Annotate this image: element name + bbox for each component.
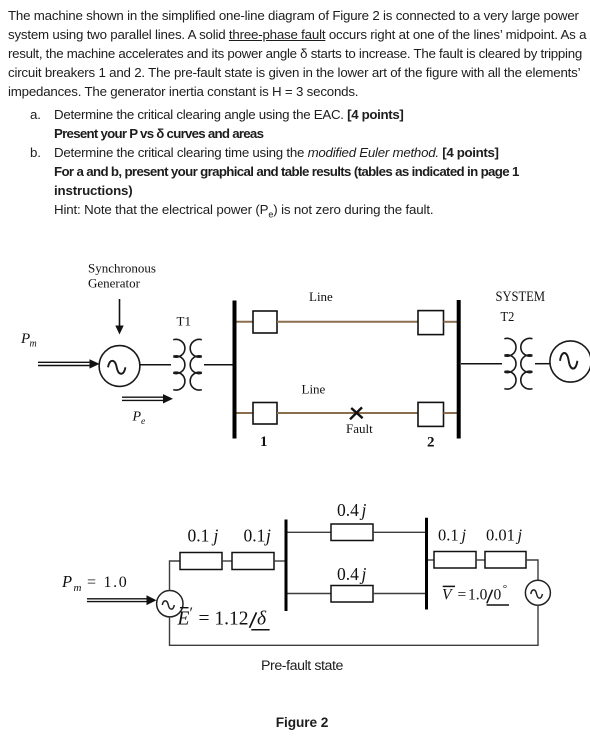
label Synchronous Generator	[88, 260, 156, 290]
label V = 1.0 angle 0	[442, 583, 509, 605]
label 0.4j lower	[337, 564, 367, 584]
svg-text:1.0: 1.0	[104, 574, 129, 591]
reactance 0.1j first	[180, 553, 222, 570]
svg-text:m: m	[30, 339, 37, 350]
reactance 0.01j	[485, 552, 526, 569]
label 0.1j first	[188, 526, 219, 546]
reactance 0.1j second	[232, 553, 274, 570]
svg-text:δ: δ	[257, 608, 267, 629]
wire busA to 0.4j lower	[288, 593, 332, 595]
wire source to top rail	[170, 561, 181, 591]
svg-text:0.01: 0.01	[486, 526, 515, 545]
svg-text:0.1: 0.1	[188, 526, 210, 546]
svg-text:P: P	[61, 572, 72, 591]
wire between 0.1j boxes	[222, 560, 232, 562]
fault X mark	[350, 407, 363, 419]
svg-text:SYSTEM: SYSTEM	[496, 289, 546, 305]
transformer T1	[173, 339, 202, 390]
wire T1 to bus 1	[204, 364, 233, 366]
label Line lower	[302, 382, 326, 397]
wire upper line	[277, 321, 418, 323]
svg-text:0.4: 0.4	[337, 564, 359, 584]
svg-text:Generator: Generator	[88, 276, 141, 291]
wire 0.01j to source V	[526, 560, 538, 580]
label 0.01j	[486, 526, 523, 545]
Pm input arrow	[38, 359, 100, 368]
bus A	[285, 520, 288, 612]
label 2	[427, 434, 435, 450]
svg-text:°: °	[503, 583, 507, 595]
label 1	[260, 434, 268, 450]
wire bus2 to T2	[461, 363, 502, 365]
svg-text:j: j	[516, 526, 523, 545]
wire T2 to system source	[535, 363, 551, 365]
svg-text:j: j	[264, 526, 271, 546]
system source S1	[550, 341, 590, 382]
node Pm label	[20, 331, 37, 350]
wire bus1 to breaker 1 upper	[237, 321, 254, 323]
wire busA to 0.4j upper	[288, 531, 332, 533]
svg-text:j: j	[212, 526, 219, 546]
wire breaker to bus 2 lower	[444, 412, 458, 414]
svg-text:′: ′	[190, 605, 194, 622]
label T2	[501, 310, 515, 325]
wire to bus A	[274, 560, 286, 562]
label E' = 1.12 angle delta	[177, 605, 270, 630]
svg-text:0.1: 0.1	[438, 526, 459, 545]
svg-text:T1: T1	[177, 313, 191, 328]
node Pm = 1.0 label	[61, 572, 128, 594]
svg-text:1.0: 1.0	[468, 586, 488, 603]
breaker 2 lower line	[418, 402, 444, 426]
arrow to generator	[115, 299, 123, 335]
wire 0.4j lower to bus B	[373, 593, 425, 595]
svg-text:Synchronous: Synchronous	[88, 260, 156, 275]
svg-text:j: j	[460, 526, 467, 545]
label 0.4j upper	[337, 500, 367, 520]
reactance 0.4j upper	[331, 524, 373, 541]
label Fault	[346, 421, 373, 436]
breaker 1 upper line	[253, 311, 277, 333]
svg-text:E: E	[177, 608, 190, 629]
svg-text:0.1: 0.1	[244, 526, 266, 546]
reactance 0.4j lower	[331, 586, 373, 603]
svg-text:m: m	[74, 582, 82, 594]
label 0.1j second	[244, 526, 272, 546]
wire busB to 0.1j	[428, 559, 434, 561]
svg-text:=: =	[87, 574, 96, 591]
Pe output arrow	[122, 394, 173, 403]
transformer T2	[504, 338, 532, 389]
svg-text:j: j	[360, 500, 367, 520]
Pm arrow lower diagram	[87, 595, 157, 605]
svg-text:=: =	[458, 586, 467, 603]
wire generator to T1	[140, 364, 172, 366]
wire breaker to bus 2 upper	[444, 321, 458, 323]
wire 0.4j upper to bus B	[373, 531, 425, 533]
svg-text:Fault: Fault	[346, 421, 373, 436]
bus bar 1	[233, 301, 237, 439]
bus B	[425, 518, 428, 610]
source E'	[157, 591, 183, 617]
svg-text:0.4: 0.4	[337, 500, 359, 520]
label SYSTEM	[496, 289, 546, 305]
wire bus1 to breaker 1 lower	[237, 412, 254, 414]
wire between right boxes	[476, 559, 485, 561]
svg-text:e: e	[141, 417, 145, 427]
svg-text:j: j	[360, 564, 367, 584]
breaker 2 upper line	[418, 311, 444, 335]
svg-text:Line: Line	[302, 382, 326, 397]
reactance 0.1j right	[434, 552, 476, 569]
svg-text:P: P	[132, 410, 142, 425]
label Line upper	[309, 289, 333, 304]
source V	[525, 580, 550, 605]
svg-text:T2: T2	[501, 310, 515, 325]
node Pe label	[132, 410, 146, 428]
wire lower line	[277, 412, 418, 414]
bottom return wire	[170, 605, 539, 645]
svg-text:2: 2	[427, 434, 435, 450]
bus bar 2	[457, 300, 461, 439]
svg-text:0: 0	[494, 586, 502, 603]
breaker 1 lower line	[253, 403, 277, 425]
svg-text:= 1.12: = 1.12	[199, 608, 249, 629]
label 0.1j right	[438, 526, 467, 545]
generator G1	[99, 346, 140, 387]
svg-text:1: 1	[260, 434, 268, 450]
svg-text:Line: Line	[309, 289, 333, 304]
label T1	[177, 313, 191, 328]
svg-text:V: V	[442, 586, 453, 603]
